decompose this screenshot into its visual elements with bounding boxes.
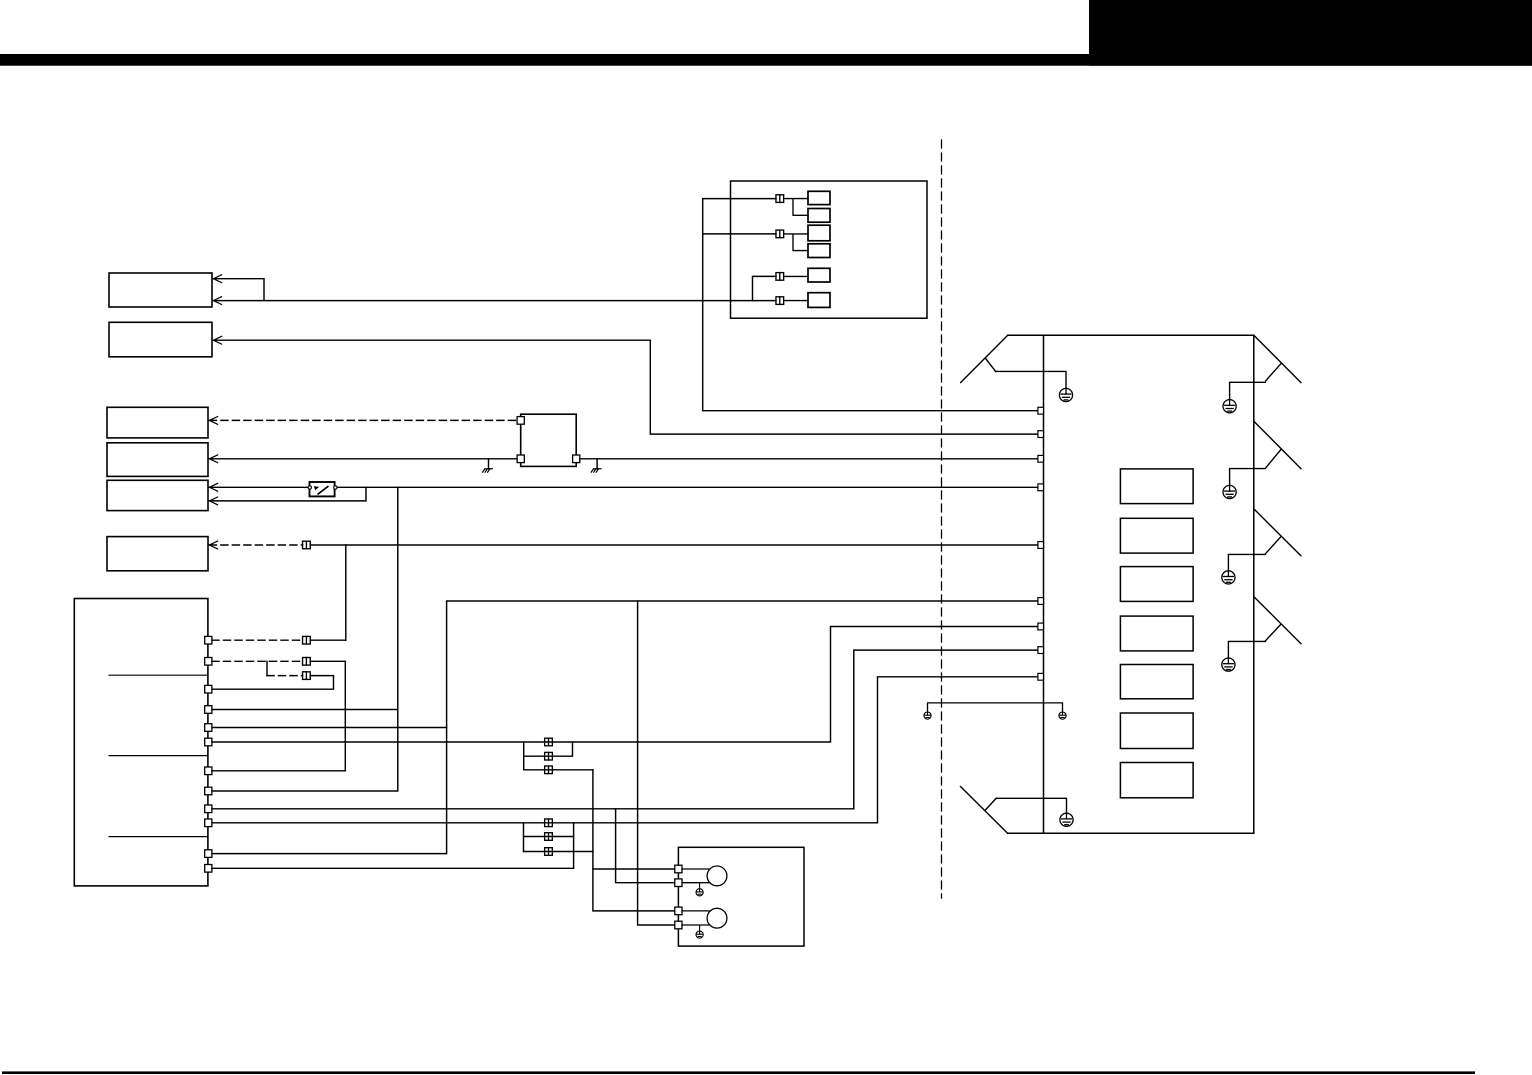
- pin F1-a: [517, 417, 524, 425]
- inline connector C1b: [545, 752, 553, 760]
- pin M-3: [675, 907, 682, 915]
- wire branch riser to J1-3: [753, 276, 777, 300]
- inline connector J1-2: [776, 230, 784, 238]
- fuse cell 5: [1120, 665, 1193, 699]
- chassis ground drop 1: [488, 459, 490, 469]
- shield wire BL: [996, 798, 1066, 813]
- pin U7-5: [205, 724, 212, 732]
- wire U1 upper jog: [213, 279, 264, 301]
- cable break R2: [1254, 421, 1301, 468]
- motor M2 leads: [682, 911, 710, 925]
- switch S1 left contact: [308, 486, 311, 489]
- pin F1-b: [517, 455, 524, 463]
- harness trunk left rail: [1043, 335, 1045, 833]
- wire U7 pin12 riser to pin10 row: [212, 823, 574, 869]
- arrow into U1 lower: [213, 297, 221, 305]
- fuse cell 3: [1120, 567, 1193, 602]
- harness pin B1: [1038, 407, 1044, 414]
- switch S1 blade: [318, 487, 328, 494]
- arrow into U4: [209, 455, 217, 463]
- cable break BL: [961, 787, 1008, 834]
- arrow into U1 upper: [213, 275, 221, 283]
- fuse cell 2: [1120, 518, 1193, 553]
- arrow into U2: [213, 336, 221, 344]
- wire pin2 branch dashed: [267, 675, 303, 677]
- inline connector C1c: [545, 766, 553, 774]
- wire cluster2 lower branch row: [524, 851, 593, 853]
- harness trunk outline: [1008, 335, 1254, 833]
- arrow into U6: [209, 541, 217, 549]
- U7 internal divider 1: [109, 674, 208, 676]
- pin U7-10: [205, 819, 212, 827]
- pin U7-9: [205, 805, 212, 813]
- chassis ground symbol 2: [591, 469, 601, 472]
- wire riser connector A net: [345, 545, 347, 640]
- U7 internal divider 2: [109, 755, 208, 757]
- motor M1 leads: [682, 869, 710, 883]
- ground G3: [1223, 485, 1236, 498]
- wire U7 pin9 to harness pin B8: [212, 650, 1038, 809]
- inline connector A: [303, 636, 311, 644]
- ground G5: [1222, 658, 1235, 671]
- inline connector C4: [303, 541, 311, 549]
- shield wire R2: [1230, 469, 1266, 486]
- pin U7-12: [205, 865, 212, 873]
- header rule bar: [0, 54, 1532, 66]
- ground G8: [1059, 712, 1066, 719]
- shield wire TR: [1230, 382, 1266, 399]
- wire U7 pin5 to power riser: [212, 727, 447, 729]
- box U1 (top-left unit 1): [109, 273, 212, 307]
- footer rule: [2, 1071, 1475, 1074]
- ground G1: [1059, 388, 1072, 401]
- wire switch-net riser down to U7 pin8: [212, 487, 398, 791]
- inline connector J1-1: [776, 195, 784, 203]
- wire U7 pin2 dashed: [212, 660, 303, 662]
- wire U7 pin11 power riser to harness pin B6: [212, 601, 1038, 854]
- wire U1 to connector J1-4: [213, 300, 776, 302]
- harness pin B5: [1038, 542, 1044, 549]
- lamp cell 6: [808, 293, 830, 308]
- motor M2: [707, 908, 727, 928]
- switch S1 right contact: [334, 486, 337, 489]
- wire U6 dashed segment: [209, 544, 302, 546]
- lamp cell 5: [808, 268, 830, 282]
- box U3 (sensor 1): [107, 407, 208, 438]
- wire cluster1 middle loop: [524, 742, 573, 756]
- pin M-2: [675, 879, 682, 887]
- blower unit box: [678, 847, 804, 946]
- inline connector C1a: [545, 738, 553, 746]
- pin F1-c: [573, 455, 580, 463]
- shield wire TL: [996, 371, 1066, 388]
- wire switch to harness pin B4: [337, 486, 1038, 488]
- harness pin B8: [1038, 647, 1044, 654]
- shield wire R4: [1228, 641, 1265, 658]
- wire tee to blower pin1: [593, 868, 675, 870]
- wire U7 pin4 to switch-net riser: [212, 709, 398, 711]
- wire U5 second line merging after switch: [209, 487, 366, 501]
- wire J1-4 to lamp 6: [784, 300, 808, 302]
- ground G9: [696, 889, 703, 896]
- inline connector J1-3: [776, 273, 784, 281]
- fuse cell 1: [1120, 469, 1193, 504]
- cable break R4: [1254, 597, 1301, 644]
- box U7 (main control unit): [74, 599, 208, 886]
- chassis ground drop 2: [596, 459, 598, 469]
- pin U7-11: [205, 850, 212, 858]
- box U4 (sensor 2): [107, 443, 208, 477]
- pin U7-1: [205, 636, 212, 644]
- wire B1 down to U7 pin7: [212, 661, 345, 771]
- harness pin B6: [1038, 598, 1044, 605]
- wire U7 pin1 dashed: [212, 639, 303, 641]
- inline connector J1-4: [776, 297, 784, 305]
- cable break TL: [961, 335, 1008, 382]
- wire B2 down to U7 pin3: [212, 676, 334, 690]
- wire connector A to riser: [310, 639, 346, 641]
- lamp cell 4: [808, 244, 830, 258]
- arrow into U3: [209, 417, 217, 425]
- wire J1-2 to lamps 3+4: [784, 234, 808, 251]
- lamp cell 1: [808, 191, 830, 204]
- ground G10 drop: [699, 925, 701, 931]
- pin U7-2: [205, 658, 212, 666]
- wire pin2 dashed branch step: [266, 661, 268, 675]
- harness pin B4: [1038, 484, 1044, 491]
- wire branch to blower pin4: [638, 601, 675, 925]
- fuse cell 4: [1120, 616, 1193, 651]
- wire U7 pin6 to harness pin B7: [212, 627, 1038, 743]
- wire J1-1 to harness pin B1: [703, 199, 1038, 411]
- pin U7-8: [205, 787, 212, 795]
- wire drop to blower pins 1 and 3: [593, 770, 675, 911]
- box U2 (top-left unit 2): [109, 322, 212, 357]
- wire cluster1 left branch: [523, 742, 525, 770]
- pin U7-6: [205, 738, 212, 746]
- wire U5 to switch: [209, 486, 308, 488]
- shield wire R3: [1228, 554, 1265, 570]
- fuse cell 6: [1120, 713, 1193, 749]
- wire J1-1 to lamps 1+2: [784, 199, 808, 216]
- shield drain wire: [928, 703, 1063, 712]
- connector housing box (instrument block): [731, 181, 928, 318]
- ground G6: [1060, 813, 1073, 826]
- arrow into U5 upper: [209, 483, 217, 491]
- header black title block: [1089, 0, 1532, 66]
- wire J1-3 to lamp 5: [784, 275, 808, 277]
- filter module F1: [521, 414, 577, 466]
- box U6 (sensor 4): [107, 537, 208, 571]
- wire branch to blower pin2: [616, 809, 675, 883]
- cable break R3: [1254, 509, 1301, 556]
- inline connector C2b: [545, 833, 553, 841]
- inline connector C2a: [545, 819, 553, 827]
- wire U3 dashed signal line: [209, 419, 516, 421]
- lamp cell 3: [808, 225, 830, 241]
- wire C4 to harness pin B5: [310, 544, 1038, 546]
- cable break TR: [1254, 335, 1301, 382]
- wire filter to harness pin B3: [580, 458, 1038, 460]
- motor M1: [707, 866, 727, 886]
- box U5 (sensor 3): [107, 480, 208, 510]
- inline connector C2c: [545, 848, 553, 856]
- switch S1 actuator arrow: [314, 486, 319, 490]
- fuse cell 7: [1120, 763, 1193, 798]
- harness pin B2: [1038, 431, 1044, 438]
- wire cluster2 middle loop: [524, 836, 574, 838]
- ground G4: [1222, 571, 1235, 584]
- wire U2 to harness pin B2: [213, 340, 1038, 434]
- wire cluster1 lower branch row: [524, 769, 593, 771]
- page split dashed line: [941, 140, 943, 898]
- pin M-4: [675, 921, 682, 929]
- wire J1-2 stub to riser: [703, 233, 776, 235]
- pin U7-4: [205, 706, 212, 714]
- harness pin B9: [1038, 673, 1044, 680]
- ground G10: [696, 931, 703, 938]
- inline connector B2: [303, 672, 311, 680]
- U7 internal divider 3: [109, 836, 208, 838]
- harness pin B7: [1038, 623, 1044, 630]
- chassis ground symbol 1: [483, 469, 493, 472]
- wire U7 pin10 to harness pin B9: [212, 677, 1038, 823]
- ground G2: [1223, 400, 1236, 413]
- wire U4 to filter: [209, 458, 517, 460]
- inline connector B1: [303, 658, 311, 666]
- ground G9 drop: [699, 883, 701, 889]
- pin U7-3: [205, 685, 212, 693]
- harness pin B3: [1038, 455, 1044, 462]
- lamp cell 2: [808, 209, 830, 223]
- ground G7: [924, 712, 931, 719]
- arrow into U5 lower: [209, 497, 217, 505]
- wire cluster2 left branch: [523, 823, 525, 852]
- pin M-1: [675, 865, 682, 873]
- pin U7-7: [205, 767, 212, 775]
- switch S1 body: [310, 482, 335, 496]
